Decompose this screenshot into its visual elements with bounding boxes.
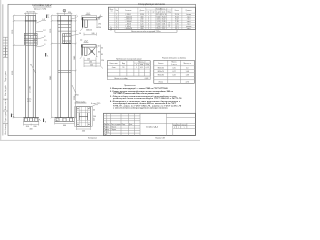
svg-text:1250: 1250: [75, 94, 79, 96]
section 2-2 flange: [81, 45, 96, 48]
svg-text:ГОСТ 9467-75, катет шва 4 мм,: ГОСТ 9467-75, катет шва 4 мм, если не ук…: [113, 92, 160, 95]
svg-text:240х12: 240х12: [86, 29, 92, 31]
svg-text:Н.контр.: Н.контр.: [104, 132, 110, 134]
left margin line: [2, 4, 4, 135]
svg-text:лист: лист: [187, 28, 191, 30]
svg-text:7: 7: [116, 28, 117, 30]
column C1 height dimension line: [13, 15, 26, 119]
svg-text:Вид: Вид: [122, 63, 125, 65]
title block header tiny text row: [104, 124, 133, 136]
svg-text:Петров: Петров: [111, 129, 116, 131]
plan anchor bolts: [77, 108, 90, 126]
svg-text:Примечания:: Примечания:: [124, 85, 136, 87]
spec table row text: [110, 14, 191, 31]
column C2 top flange plate: [57, 20, 72, 22]
title block outline: [104, 113, 196, 135]
plan column section: [79, 113, 88, 120]
svg-text:0,48: 0,48: [145, 78, 149, 80]
anchor bolt leader text: [89, 102, 100, 108]
svg-text:Итого: Итого: [159, 81, 163, 83]
svg-text:30: 30: [56, 120, 58, 122]
column C2 left dimension line: [51, 15, 63, 119]
section 1-1 top dimension: [82, 15, 96, 17]
svg-text:№ докум.: № докум.: [114, 124, 121, 126]
svg-text:3: 3: [44, 44, 45, 46]
notes block: [109, 85, 182, 110]
svg-text:240: 240: [92, 33, 95, 35]
section 2-2 bottom dimensions: [84, 58, 103, 69]
section 1-1 bottom dimension: [84, 33, 96, 36]
svg-text:1210: 1210: [12, 30, 14, 34]
svg-text:Длина: Длина: [140, 10, 145, 12]
svg-text:Общ: Общ: [145, 64, 149, 66]
svg-text:85: 85: [101, 54, 103, 56]
title block right cells: [167, 113, 196, 135]
svg-text:Взам. инв. №: Взам. инв. №: [4, 99, 7, 110]
svg-text:240: 240: [93, 116, 96, 118]
svg-text:190: 190: [98, 23, 101, 25]
svg-text:Лист: Лист: [177, 124, 180, 126]
svg-text:30: 30: [101, 48, 103, 50]
section 2-2 web: [85, 47, 88, 56]
svg-text:1: 1: [136, 67, 137, 69]
svg-text:ка: ка: [111, 11, 113, 13]
plan dimensions: [74, 107, 92, 130]
svg-text:Катет шва: Катет шва: [110, 63, 118, 65]
column C2 base dimension: [55, 118, 75, 124]
sheet edge shadow left: [0, 0, 2, 141]
svg-text:Всего на стойку: Всего на стойку: [114, 77, 127, 80]
column C2 mid splice: [58, 70, 71, 72]
svg-text:250: 250: [98, 27, 101, 29]
svg-text:5: 5: [77, 16, 78, 18]
svg-text:Инв. № дубл.: Инв. № дубл.: [4, 84, 7, 96]
column C1 shaft lines: [26, 16, 36, 118]
column C2 gusset detail: [63, 34, 72, 44]
column C1 elevation face view: [12, 11, 46, 130]
svg-text:Сечение: Сечение: [125, 10, 131, 12]
svg-text:1,08: 1,08: [186, 71, 189, 73]
section cut mark 1 top: [47, 15, 51, 20]
svg-text:1. Материал конструкций — стал: 1. Материал конструкций — сталь С245 по …: [110, 87, 168, 90]
svg-text:Подп. и дата: Подп. и дата: [5, 112, 7, 123]
column C1 top dimension line: [24, 13, 38, 16]
margin dividers bottom: [3, 99, 8, 124]
svg-text:Болты: Болты: [158, 63, 164, 65]
svg-text:Всего масса м/конструкций 218: Всего масса м/конструкций 218 кг: [131, 30, 161, 33]
column C2 right dimension line: [71, 15, 76, 119]
column C1 splice detail lines: [24, 33, 37, 45]
svg-text:200: 200: [26, 126, 29, 128]
svg-text:1640: 1640: [74, 56, 76, 60]
plan flange lines: [77, 107, 91, 127]
svg-text:Иванов: Иванов: [111, 127, 116, 129]
section 1-1 flange: [82, 17, 96, 20]
svg-text:Поз: Поз: [115, 10, 118, 12]
svg-text:Разраб.: Разраб.: [104, 127, 110, 129]
svg-text:80 100 80: 80 100 80: [26, 11, 34, 13]
svg-text:3840: 3840: [50, 76, 52, 80]
svg-text:550: 550: [94, 118, 96, 121]
svg-text:Подп. и дата: Подп. и дата: [5, 71, 7, 82]
svg-text:40: 40: [93, 110, 95, 112]
svg-text:Стойка СД-2: Стойка СД-2: [32, 3, 52, 7]
svg-text:4: 4: [100, 15, 101, 17]
svg-text:120: 120: [87, 59, 90, 61]
column C1 top flange plate: [25, 20, 37, 22]
svg-text:50: 50: [98, 46, 100, 48]
svg-text:Провер.: Провер.: [104, 129, 110, 131]
svg-text:Инв. № подл.: Инв. № подл.: [4, 123, 7, 135]
svg-text:12: 12: [43, 30, 45, 32]
column C1 bottom dimension: [24, 118, 39, 125]
anchor base plan view: [74, 107, 96, 133]
section 2-2 dimensions right: [96, 45, 100, 66]
title block left grid horizontals: [104, 116, 196, 133]
svg-text:217,9: 217,9: [169, 22, 171, 27]
spec table summary row: [115, 30, 177, 33]
svg-text:с обеспечением контролируемой: с обеспечением контролируемой затяжки бо…: [113, 107, 168, 110]
svg-text:0,12: 0,12: [140, 67, 143, 69]
svg-text:120: 120: [101, 60, 104, 62]
column C2 axis mark: [63, 9, 66, 12]
spec table header text: [110, 8, 193, 13]
svg-text:М24х80: М24х80: [158, 74, 164, 76]
svg-text:160: 160: [89, 62, 92, 64]
svg-text:М20х60: М20х60: [158, 67, 164, 69]
weld requirements table: [107, 58, 150, 79]
steel specification table: [108, 3, 195, 33]
title block: [104, 113, 196, 136]
svg-text:Мар-: Мар-: [110, 9, 114, 11]
svg-text:1 шт, кг: 1 шт, кг: [171, 64, 177, 66]
svg-text:7: 7: [30, 65, 31, 67]
svg-text:М20х70: М20х70: [158, 71, 164, 73]
bolt consumption table: [154, 57, 195, 84]
column C2 shaft lines: [58, 16, 71, 118]
column C2 stiffener lines: [58, 24, 71, 31]
svg-text:10: 10: [79, 33, 81, 35]
svg-text:(фасад 1:25): (фасад 1:25): [34, 7, 47, 10]
section 1-1 right dimensions: [96, 17, 102, 28]
svg-text:1,68: 1,68: [186, 74, 189, 76]
column C2 leader labels: [71, 18, 78, 94]
svg-text:4,76: 4,76: [186, 81, 189, 83]
svg-text:Масса, кг: Масса, кг: [160, 8, 168, 10]
column C2 top dimension: [57, 13, 73, 16]
svg-text:Стойка СД-2: Стойка СД-2: [146, 126, 159, 129]
svg-text:5150: 5150: [12, 71, 14, 75]
svg-text:15: 15: [44, 40, 46, 42]
column C1 web centre line: [30, 16, 32, 46]
svg-text:СД-2: СД-2: [110, 26, 112, 30]
svg-text:Всего: Всего: [175, 10, 179, 12]
section 2-2 leader circle: [80, 39, 82, 41]
svg-text:Р: Р: [174, 127, 175, 129]
svg-text:25,1: 25,1: [162, 28, 166, 30]
column C1 mid leader: [31, 64, 36, 73]
svg-text:Масса, кг: Масса, кг: [184, 63, 192, 65]
section detail 2-2: [80, 39, 104, 68]
svg-text:0,42: 0,42: [172, 74, 175, 76]
section cut mark 3 bottom: [44, 119, 47, 124]
section 1-1 web: [85, 20, 88, 28]
column C2 side view: [50, 9, 81, 127]
svg-text:Подп.: Подп.: [122, 124, 126, 126]
svg-text:Листов: Листов: [182, 124, 187, 126]
column C1 anchor blocks: [24, 118, 39, 121]
svg-text:320: 320: [68, 12, 71, 14]
svg-text:0,27: 0,27: [172, 71, 175, 73]
svg-text:Копировал: Копировал: [88, 138, 97, 140]
svg-text:400: 400: [82, 130, 85, 132]
column C1 base plate: [24, 117, 39, 119]
svg-text:Кол: Кол: [107, 124, 110, 126]
section detail 1-1: [80, 13, 102, 36]
title block left grid verticals: [107, 113, 140, 135]
section 2-2 brace cross: [89, 48, 96, 55]
svg-text:60: 60: [98, 18, 100, 20]
svg-text:400: 400: [29, 129, 32, 131]
svg-text:200: 200: [33, 126, 36, 128]
svg-text:Общ.: Общ.: [167, 11, 171, 13]
svg-text:600: 600: [63, 125, 66, 127]
svg-text:240: 240: [90, 65, 93, 67]
svg-text:2,0: 2,0: [186, 67, 188, 69]
svg-text:4 отв. ∅25: 4 отв. ∅25: [91, 102, 100, 105]
svg-text:ст. С245: ст. С245: [30, 86, 32, 93]
svg-text:Согласовано: Согласовано: [5, 47, 7, 57]
section cut mark 1 bottom: [46, 53, 50, 58]
svg-text:∅23: ∅23: [27, 100, 31, 103]
margin ladder boxes top: [3, 37, 8, 57]
sheet edge shadow bottom: [0, 139, 200, 141]
svg-text:0,12: 0,12: [146, 67, 149, 69]
drawing frame: [8, 4, 196, 135]
anchor plan label: [75, 101, 87, 103]
svg-text:8: 8: [44, 36, 45, 38]
svg-text:Расход металла на болты: Расход металла на болты: [162, 57, 187, 60]
svg-text:Спецификация металла: Спецификация металла: [138, 3, 165, 6]
drawing title: [32, 3, 52, 10]
margin vertical texts: [4, 47, 7, 135]
svg-text:2200: 2200: [74, 96, 76, 100]
column C1 top cap: [26, 15, 36, 17]
section cut mark 3 left: [11, 114, 14, 119]
svg-text:Примеч.: Примеч.: [186, 10, 193, 12]
svg-text:Требования к сварным швам: Требования к сварным швам: [116, 58, 142, 60]
svg-text:2-2: 2-2: [42, 19, 45, 21]
weld table total row: [107, 76, 150, 79]
column C2 base plate: [55, 117, 75, 119]
svg-text:0,25: 0,25: [172, 67, 175, 69]
column C1 splice bolts: [27, 34, 35, 42]
svg-text:Дата: Дата: [129, 124, 132, 126]
svg-text:размещение швов соответствует: размещение швов соответствует ГОСТ 5264-…: [112, 97, 182, 100]
spec table body: [108, 7, 195, 29]
svg-text:Формат А3: Формат А3: [155, 137, 165, 140]
column C1 leader labels: [36, 21, 46, 47]
svg-text:Масса, кг: Масса, кг: [138, 61, 146, 63]
svg-text:шов: шов: [140, 64, 143, 66]
svg-text:н2: н2: [153, 11, 155, 13]
svg-text:1210: 1210: [50, 29, 52, 33]
